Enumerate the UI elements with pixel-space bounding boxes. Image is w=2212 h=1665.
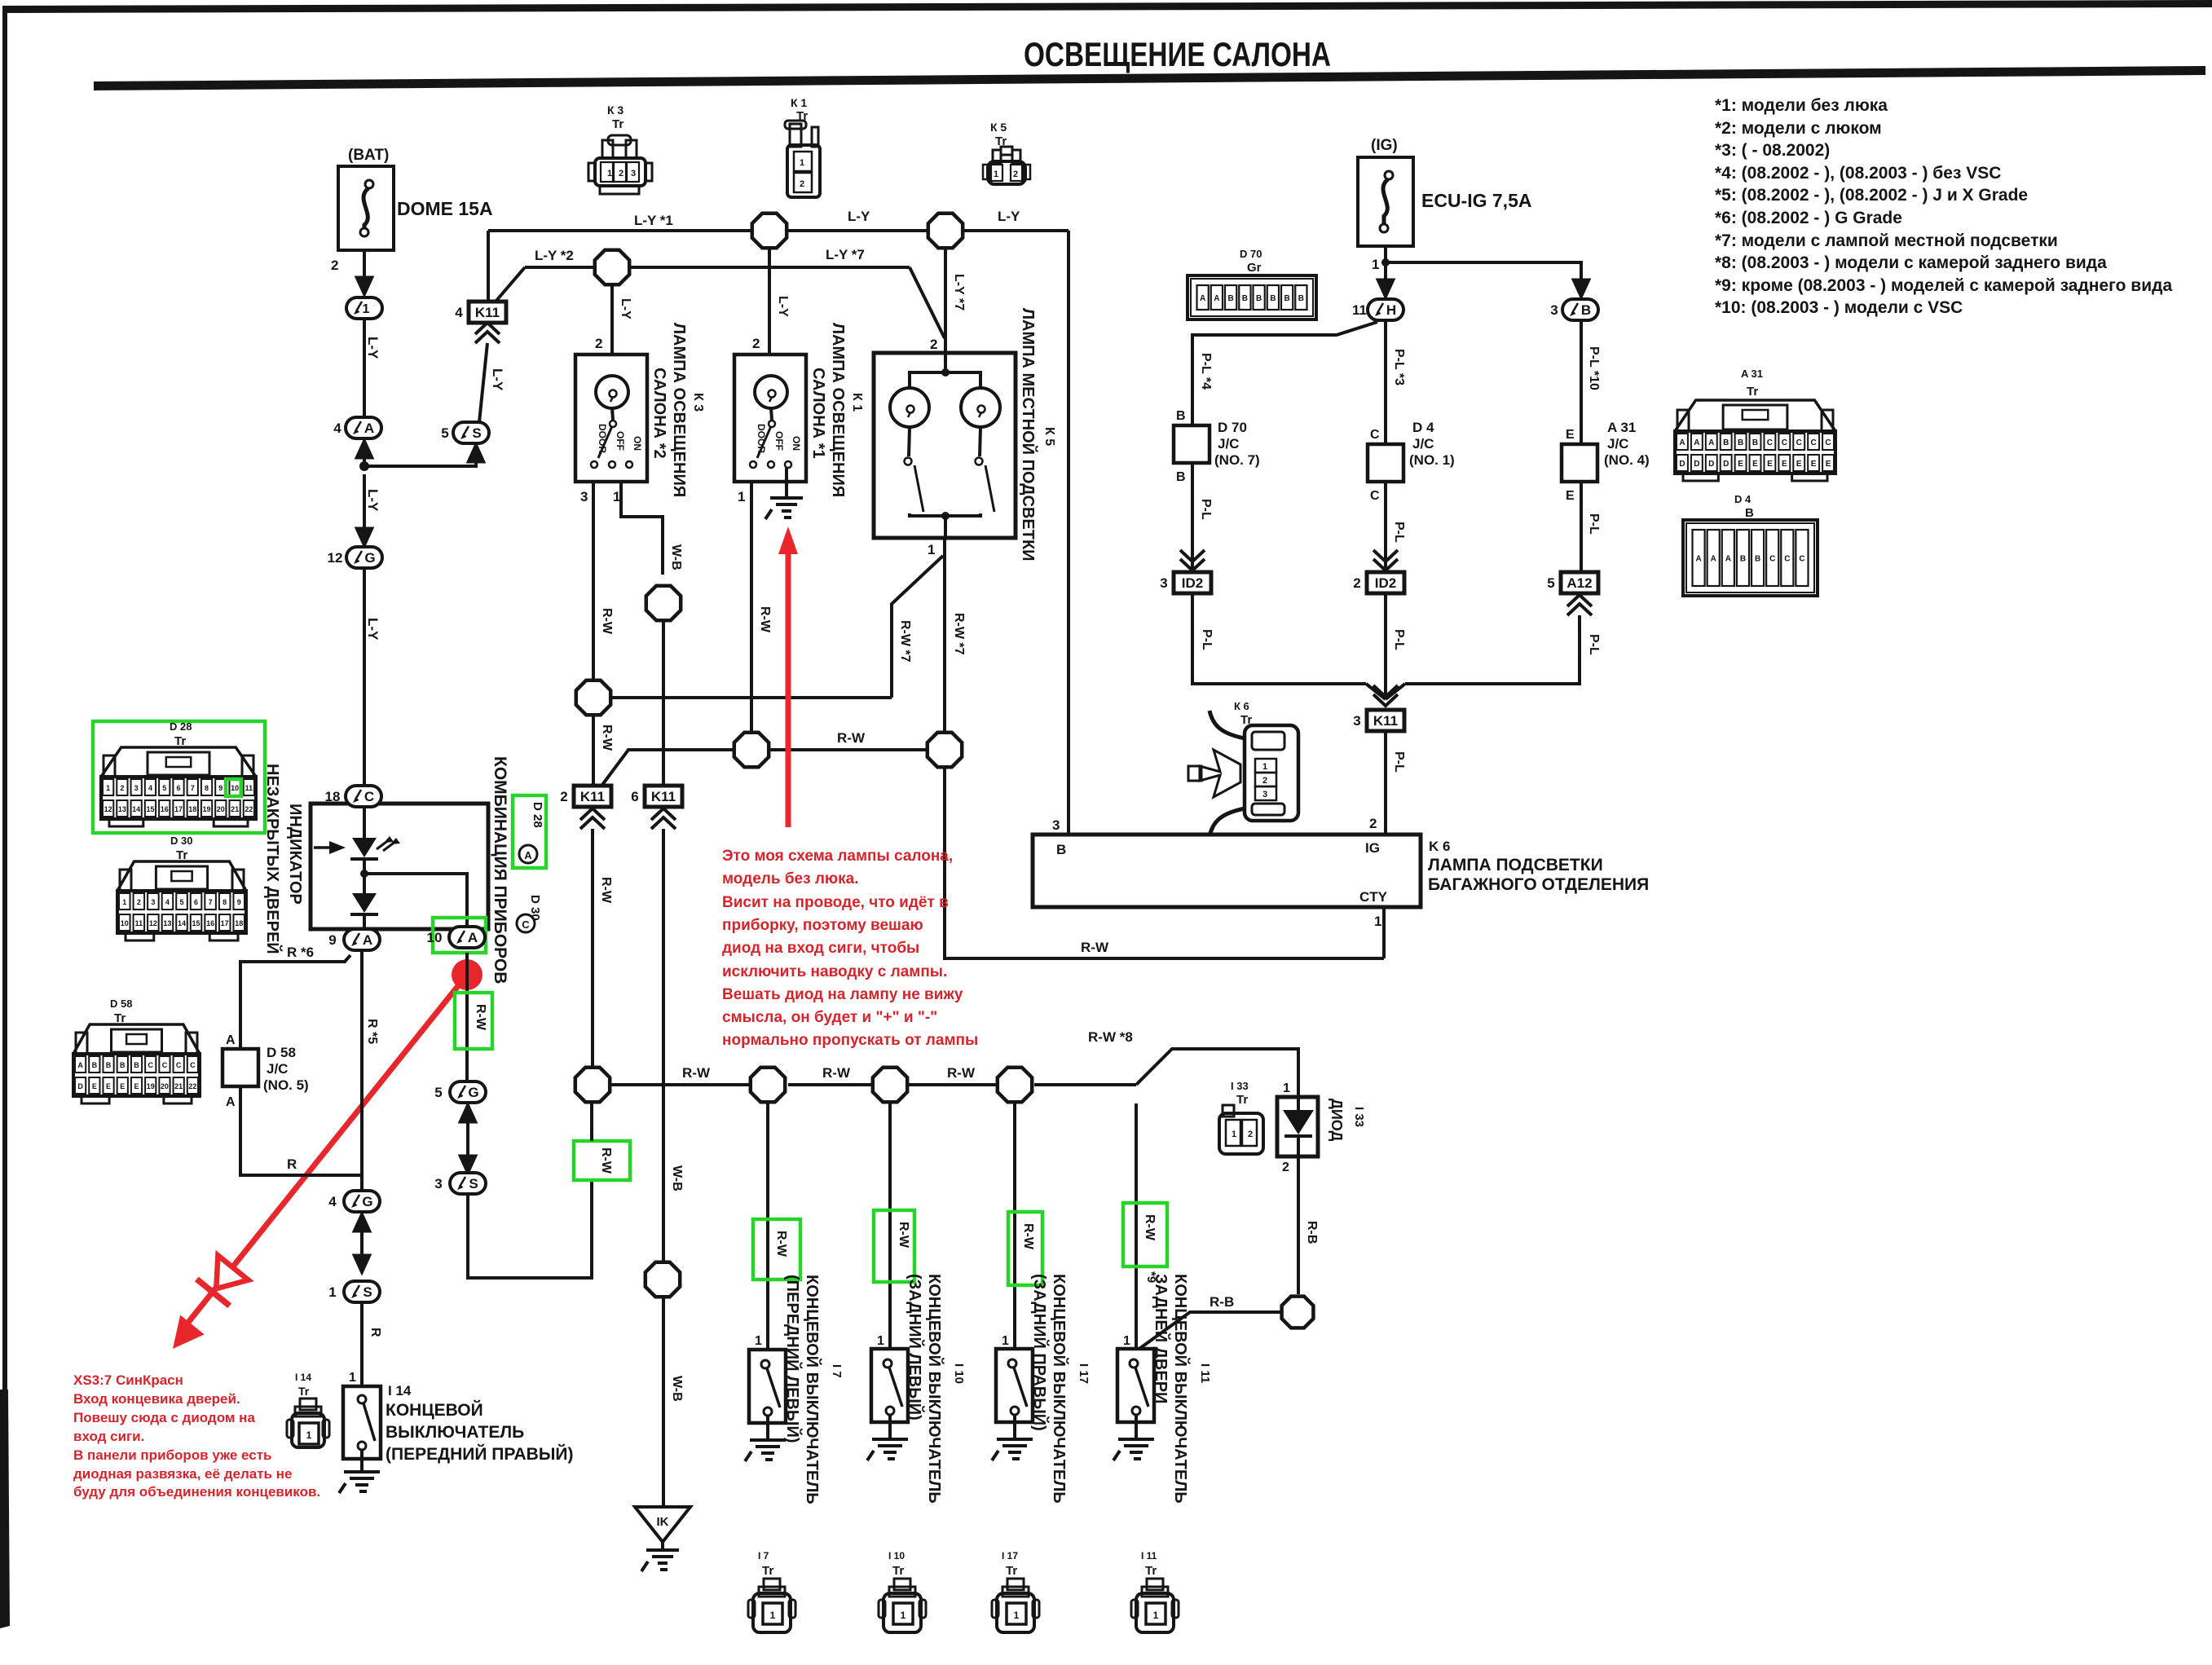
ground back door switch [1113, 1439, 1154, 1460]
svg-text:D: D [1723, 460, 1729, 469]
switch lever front left door switch [767, 1368, 780, 1407]
switch box rear right door switch [996, 1349, 1033, 1422]
svg-text:A: A [1708, 438, 1714, 447]
connector oval 10(A) [427, 927, 485, 948]
svg-text:*5: (08.2002 - ), (08.2002 - ): *5: (08.2002 - ), (08.2002 - ) J и X Gra… [1715, 186, 2028, 205]
wire K5 diagonal branch [892, 556, 943, 698]
wire bus L-Y *1 [488, 229, 1069, 232]
red annotation text block 2 [73, 1372, 320, 1500]
svg-text:P-L *4: P-L *4 [1199, 353, 1213, 390]
red annotation arrowhead [161, 1315, 204, 1359]
wire 12(1G) feed [363, 474, 366, 530]
connector icon I14 Tr [287, 1399, 329, 1447]
svg-text:5: 5 [179, 898, 183, 906]
chevron into ID2 pin3 [1180, 559, 1205, 570]
svg-text:E: E [1752, 460, 1758, 469]
connector icon D70 Gr [1188, 275, 1316, 319]
svg-text:D 28: D 28 [531, 802, 544, 828]
svg-text:CTY: CTY [1359, 889, 1388, 905]
svg-text:Висит на проводе, что идёт в: Висит на проводе, что идёт в [722, 894, 949, 911]
diode symbol I33 [1283, 1110, 1314, 1134]
arrow up below 4(1G) [354, 1214, 370, 1236]
svg-text:R *5: R *5 [365, 1019, 379, 1044]
title underline [94, 66, 2205, 90]
svg-text:R-W: R-W [758, 606, 772, 633]
green box R-W front left door switch [753, 1219, 800, 1280]
fuse ECU-IG 7,5A [1358, 157, 1413, 246]
svg-text:(ПЕРЕДНИЙ ПРАВЫЙ): (ПЕРЕДНИЙ ПРАВЫЙ) [386, 1444, 574, 1464]
svg-text:ID2: ID2 [1375, 575, 1396, 591]
switch pivot K3 [610, 421, 616, 427]
svg-text:1: 1 [1153, 1610, 1159, 1621]
fuse DOME 15A [338, 166, 394, 250]
svg-text:L-Y: L-Y [998, 209, 1020, 224]
svg-text:R-W: R-W [599, 1147, 613, 1174]
switch bottom contact front right [358, 1442, 366, 1450]
svg-text:P-L: P-L [1587, 634, 1601, 655]
switch bottom contact front left door switch [764, 1407, 772, 1416]
svg-text:К 5: К 5 [1042, 427, 1056, 446]
svg-text:18: 18 [325, 789, 341, 804]
svg-text:1: 1 [901, 1610, 906, 1621]
chevron up below K11-2 [580, 808, 605, 820]
chevron up below K11-6 [651, 808, 676, 820]
svg-text:D 4: D 4 [1734, 493, 1752, 505]
svg-text:8: 8 [223, 898, 227, 906]
svg-text:IG: IG [1365, 840, 1380, 856]
wire C to LED1 [363, 807, 366, 838]
svg-text:E: E [1782, 460, 1787, 469]
svg-text:2: 2 [800, 179, 804, 189]
svg-text:14: 14 [132, 805, 140, 813]
contact DOOR K1 [750, 461, 756, 468]
svg-text:1: 1 [1232, 1130, 1236, 1139]
svg-text:3: 3 [434, 1176, 442, 1191]
svg-text:модель без люка.: модель без люка. [722, 870, 859, 888]
svg-text:D 30: D 30 [170, 835, 192, 847]
svg-text:K11: K11 [580, 789, 605, 804]
svg-text:11: 11 [1352, 302, 1367, 318]
svg-text:Tr: Tr [1747, 385, 1758, 399]
svg-text:C: C [364, 789, 374, 804]
svg-text:7: 7 [209, 898, 213, 906]
svg-text:A: A [364, 421, 374, 436]
connector oval 9(A) [328, 929, 380, 950]
node octagon L2 on lower bus [751, 1068, 785, 1102]
svg-text:5: 5 [434, 1085, 442, 1100]
svg-text:Tr: Tr [995, 134, 1007, 148]
svg-text:(IG): (IG) [1371, 137, 1398, 154]
svg-text:8: 8 [205, 784, 209, 792]
switch lever front right [364, 1403, 375, 1441]
svg-text:вход сиги.: вход сиги. [73, 1429, 144, 1444]
connector icon K1 Tr [785, 121, 820, 197]
wire L-Y connector1 to 4(1A) [363, 319, 366, 417]
svg-text:21: 21 [231, 805, 239, 813]
instrument cluster box [311, 804, 488, 929]
svg-text:6: 6 [631, 789, 638, 804]
wire K5 lamp left to contact [909, 427, 910, 456]
wire ECU fuse down [1384, 246, 1387, 281]
svg-text:Tr: Tr [1236, 1093, 1248, 1107]
connector oval 3(1B) [1550, 299, 1598, 320]
wire J5 down to K11 pin6 [662, 622, 665, 785]
svg-text:КОНЦЕВОЙ ВЫКЛЮЧАТЕЛЬ: КОНЦЕВОЙ ВЫКЛЮЧАТЕЛЬ [803, 1275, 822, 1504]
diode box I33 [1277, 1097, 1318, 1156]
svg-text:2: 2 [331, 258, 338, 273]
wire lamp to pivot K3 [612, 408, 613, 420]
wire K5 bottom exit [944, 516, 947, 538]
svg-text:B: B [1745, 506, 1754, 520]
svg-text:2: 2 [1013, 170, 1018, 179]
wire lamp to pivot K1 [771, 408, 772, 420]
svg-text:нормально пропускать от лампы: нормально пропускать от лампы [722, 1032, 978, 1049]
svg-text:22: 22 [245, 805, 253, 813]
svg-text:R-W: R-W [822, 1065, 851, 1081]
switch box rear left door switch [871, 1349, 908, 1422]
wire rear left door switch to ground [888, 1415, 892, 1439]
wire riser to octagon [590, 1103, 593, 1141]
svg-text:КОНЦЕВОЙ: КОНЦЕВОЙ [386, 1400, 483, 1420]
svg-text:E: E [1738, 460, 1743, 469]
svg-text:R-W: R-W [1081, 940, 1109, 955]
contact OFF K1 [768, 461, 774, 468]
svg-text:C: C [1811, 438, 1817, 447]
svg-text:A: A [1679, 438, 1685, 447]
svg-text:L-Y *7: L-Y *7 [826, 247, 865, 262]
svg-text:1: 1 [800, 158, 804, 168]
red annotation line to door switch input [183, 975, 467, 1328]
svg-text:ЛАМПА ОСВЕЩЕНИЯ: ЛАМПА ОСВЕЩЕНИЯ [670, 323, 688, 497]
svg-text:Tr: Tr [1240, 713, 1252, 727]
connector icon D30 Tr [117, 861, 246, 940]
svg-text:2: 2 [1248, 1130, 1253, 1139]
green box R-W rear right door switch [1008, 1212, 1042, 1285]
svg-text:P-L: P-L [1392, 522, 1406, 543]
wire J4 right to R-W*7 corner [612, 696, 892, 699]
svg-text:1: 1 [1262, 762, 1267, 772]
svg-text:5: 5 [1547, 575, 1554, 591]
wire front left door switch to ground [766, 1416, 769, 1440]
svg-text:ДИОД: ДИОД [1329, 1099, 1345, 1142]
svg-text:3: 3 [151, 898, 155, 906]
svg-text:19: 19 [203, 805, 211, 813]
svg-text:L-Y: L-Y [490, 368, 505, 391]
svg-text:Gr: Gr [1247, 261, 1262, 275]
svg-text:КОМБИНАЦИЯ ПРИБОРОВ: КОМБИНАЦИЯ ПРИБОРОВ [491, 756, 509, 984]
junction block A12 pin 5 [1547, 572, 1598, 593]
svg-text:W-B: W-B [670, 1376, 684, 1402]
svg-text:18: 18 [188, 805, 196, 813]
svg-text:*6: (08.2002 - ) G Grade: *6: (08.2002 - ) G Grade [1715, 209, 1902, 227]
svg-text:9: 9 [237, 898, 241, 906]
svg-text:Tr: Tr [298, 1385, 310, 1398]
svg-text:2: 2 [120, 784, 124, 792]
svg-text:диодная развязка, её делать не: диодная развязка, её делать не [73, 1466, 292, 1482]
svg-text:К 6: К 6 [1234, 700, 1249, 712]
wire bus L2-L3 [788, 1083, 871, 1086]
svg-text:R-B: R-B [1305, 1221, 1319, 1244]
svg-text:*9: кроме (08.2003 - ) моделей: *9: кроме (08.2003 - ) моделей с камерой… [1715, 276, 2172, 295]
svg-text:12: 12 [328, 550, 343, 566]
svg-text:*7: модели с лампой местной по: *7: модели с лампой местной подсветки [1715, 231, 2058, 250]
connector oval 3(1S) [434, 1173, 486, 1194]
svg-text:3: 3 [1550, 302, 1558, 318]
trunk lamp box ЛАМПА ПОДСВЕТКИ БАГАЖНОГО ОТДЕЛЕНИЯ [1033, 835, 1421, 907]
LED diode 1 [352, 838, 377, 857]
svg-text:1: 1 [106, 784, 110, 792]
svg-text:L-Y: L-Y [365, 337, 381, 359]
node octagon J4 (R-W) [576, 681, 610, 715]
red junction dot [452, 959, 482, 990]
svg-text:19: 19 [147, 1082, 155, 1090]
svg-text:4: 4 [148, 784, 152, 792]
svg-text:R-W: R-W [837, 730, 866, 746]
svg-text:D 58: D 58 [110, 998, 132, 1010]
svg-text:6: 6 [194, 898, 198, 906]
svg-text:9: 9 [328, 932, 336, 948]
svg-text:I 7: I 7 [830, 1364, 844, 1378]
svg-text:A 31: A 31 [1607, 420, 1636, 435]
svg-text:E: E [120, 1082, 125, 1090]
svg-text:B: B [106, 1061, 112, 1069]
svg-text:12: 12 [149, 919, 157, 927]
svg-text:(NO. 7): (NO. 7) [1214, 452, 1260, 468]
wire 5(1S) to K11 pin4 chevron [479, 343, 487, 422]
svg-text:DOME 15A: DOME 15A [397, 198, 493, 219]
wire D70 JC down [1191, 463, 1194, 575]
svg-text:E: E [134, 1082, 139, 1090]
arrow into 11(1H) [1377, 275, 1394, 297]
switch bottom contact rear right door switch [1011, 1407, 1019, 1415]
junction block ID2 pin 3 [1160, 572, 1211, 593]
svg-text:K11: K11 [1373, 713, 1398, 729]
node octagon L3 on lower bus [873, 1068, 907, 1102]
svg-text:B: B [1298, 294, 1304, 303]
svg-text:C: C [1370, 489, 1380, 503]
svg-text:A: A [363, 932, 372, 948]
svg-text:B: B [1176, 409, 1186, 423]
svg-text:B: B [1256, 294, 1262, 303]
svg-text:K11: K11 [651, 789, 676, 804]
svg-text:НЕЗАКРЫТЫХ ДВЕРЕЙ: НЕЗАКРЫТЫХ ДВЕРЕЙ [263, 764, 283, 954]
svg-text:диод на вход сиги, чтобы: диод на вход сиги, чтобы [722, 940, 919, 957]
wire K11-2 down to octagon [591, 829, 594, 1066]
arrow into 12(1G) [356, 523, 372, 546]
svg-text:A: A [1214, 294, 1219, 303]
red vertical arrow [786, 544, 791, 827]
wire K11-3 down to trunk lamp [1384, 731, 1387, 835]
svg-text:1: 1 [122, 898, 126, 906]
svg-text:XS3:7 СинКрасн: XS3:7 СинКрасн [73, 1372, 183, 1388]
svg-text:К 1: К 1 [791, 96, 807, 109]
node K5 top junction [941, 368, 950, 377]
wire ID2-3 down to merge [1192, 593, 1366, 684]
junction block K11 pin 4 [455, 302, 506, 323]
connector oval 1 [346, 297, 382, 319]
border frame bottom-left bar [0, 1390, 10, 1628]
svg-text:1: 1 [994, 170, 998, 179]
switch bottom contact rear left door switch [886, 1407, 894, 1415]
connector oval 5(1G) [434, 1081, 486, 1103]
svg-text:E: E [1767, 460, 1773, 469]
wire 9(A) down [360, 950, 364, 1175]
svg-text:D: D [77, 1082, 83, 1090]
green box around D 28 A label [513, 795, 546, 868]
connector oval 1(1S) [328, 1281, 380, 1302]
wire drop to back door switch [1135, 1103, 1138, 1349]
svg-text:P-L: P-L [1200, 629, 1214, 650]
svg-text:Tr: Tr [174, 734, 186, 748]
svg-text:R-W: R-W [682, 1065, 711, 1081]
svg-text:P-L: P-L [1199, 499, 1213, 520]
connector icon K3 Tr [588, 135, 652, 194]
switch lever back door switch [1135, 1368, 1148, 1407]
node K5 bottom junction [941, 512, 950, 520]
arrow into 3(1S) [460, 1151, 476, 1174]
svg-text:1: 1 [877, 1334, 884, 1348]
wire A31 JC down [1580, 482, 1583, 574]
svg-text:11: 11 [245, 784, 253, 792]
svg-text:C: C [1784, 555, 1790, 564]
node LED junction [360, 870, 368, 878]
switch lever K1 [757, 426, 771, 458]
svg-text:D 58: D 58 [267, 1045, 296, 1060]
svg-text:20: 20 [161, 1082, 169, 1090]
svg-text:P-L *3: P-L *3 [1392, 349, 1406, 385]
svg-text:J/C: J/C [267, 1061, 288, 1077]
svg-text:I 7: I 7 [758, 1550, 769, 1561]
svg-text:исключить наводку с лампы.: исключить наводку с лампы. [722, 963, 947, 980]
ground triangle IK [635, 1507, 690, 1542]
svg-text:3: 3 [1052, 817, 1060, 833]
svg-text:Tr: Tr [176, 848, 187, 862]
svg-text:17: 17 [221, 919, 229, 927]
svg-text:К 3: К 3 [691, 393, 705, 412]
svg-text:9: 9 [218, 784, 223, 792]
svg-text:D: D [1679, 460, 1685, 469]
wire junction to 5(1S) riser [364, 461, 476, 466]
svg-text:C: C [190, 1061, 196, 1069]
svg-text:2: 2 [619, 169, 624, 178]
svg-text:Повешу сюда с диодом на: Повешу сюда с диодом на [73, 1410, 255, 1425]
svg-text:Tr: Tr [1006, 1564, 1017, 1578]
wire R-W bus A-B [770, 748, 926, 751]
svg-text:Вход концевика дверей.: Вход концевика дверей. [73, 1391, 240, 1407]
lamp symbol in K1 [755, 376, 787, 408]
svg-text:B: B [1228, 294, 1234, 303]
switch box front right [343, 1386, 381, 1459]
wire 11(1H) down middle P-L [1384, 320, 1387, 444]
green highlight pin 10 of D28 [226, 779, 241, 796]
svg-text:1: 1 [755, 1334, 762, 1348]
wire K11 to L-Y bus corner [487, 231, 490, 302]
connector icon A31 Tr [1675, 400, 1835, 481]
svg-text:*8: (08.2003 - ) модели с каме: *8: (08.2003 - ) модели с камерой заднег… [1715, 253, 2107, 272]
svg-text:C: C [1825, 438, 1831, 447]
svg-text:13: 13 [118, 805, 126, 813]
svg-text:16: 16 [161, 805, 169, 813]
svg-text:H: H [1386, 302, 1396, 318]
lamp symbol K5 right [961, 388, 1000, 427]
wire J1 drop to lamp K1 [768, 249, 771, 355]
svg-text:5: 5 [162, 784, 166, 792]
node octagon J2 on L-Y bus [928, 214, 963, 248]
wire 3(1S) down right up to octagon [468, 1180, 592, 1278]
svg-text:(BAT): (BAT) [348, 147, 389, 164]
svg-text:1: 1 [1374, 914, 1381, 929]
svg-text:B: B [1723, 438, 1729, 447]
svg-text:C: C [1799, 555, 1804, 564]
svg-text:G: G [362, 1194, 372, 1209]
svg-text:J/C: J/C [1412, 436, 1434, 451]
svg-text:R-W: R-W [600, 608, 614, 635]
wire octagon B down and left to trunk pin1 [945, 769, 1384, 958]
junction block K11 pin 2 [560, 786, 611, 807]
svg-text:ВЫКЛЮЧАТЕЛЬ: ВЫКЛЮЧАТЕЛЬ [386, 1423, 524, 1442]
svg-text:C: C [176, 1061, 182, 1069]
svg-text:1: 1 [770, 1610, 776, 1621]
svg-text:C: C [522, 918, 530, 931]
svg-text:B: B [1581, 302, 1591, 318]
LED diode 2 [352, 893, 377, 913]
svg-text:R: R [368, 1328, 382, 1337]
svg-text:E: E [92, 1082, 97, 1090]
svg-text:3: 3 [1353, 713, 1360, 729]
wire K1 pin1 R-W down [750, 482, 753, 731]
switch box front left door switch [749, 1350, 786, 1423]
lamp box K1 САЛОНА [734, 355, 806, 482]
svg-text:14: 14 [178, 919, 186, 927]
switch lever rear right door switch [1014, 1368, 1027, 1407]
wire K3 pin1 to W-B drop [621, 482, 663, 575]
svg-text:2: 2 [752, 336, 760, 351]
switch lever rear left door switch [889, 1368, 902, 1407]
svg-text:B: B [1176, 470, 1186, 484]
node octagon L1 on lower bus [575, 1068, 610, 1102]
connector oval 18(C) on cluster [325, 786, 381, 807]
ground front right switch [339, 1472, 380, 1493]
svg-text:G: G [468, 1085, 478, 1100]
svg-text:K11: K11 [475, 305, 500, 320]
svg-text:1: 1 [1002, 1334, 1009, 1348]
wire ECU branch to right [1386, 262, 1581, 281]
svg-text:DOOR: DOOR [597, 424, 608, 453]
svg-text:R-W: R-W [599, 877, 613, 904]
svg-text:D: D [1694, 460, 1699, 469]
svg-text:I 14: I 14 [295, 1372, 311, 1383]
border frame left [2, 6, 7, 1493]
svg-text:R-W: R-W [600, 725, 614, 751]
contact K5 left [905, 458, 912, 465]
svg-text:10: 10 [121, 919, 129, 927]
svg-text:A: A [468, 930, 478, 945]
svg-text:S: S [472, 425, 481, 441]
svg-text:ЛАМПА ПОДСВЕТКИ: ЛАМПА ПОДСВЕТКИ [1428, 856, 1603, 874]
svg-text:КОНЦЕВОЙ ВЫКЛЮЧАТЕЛЬ: КОНЦЕВОЙ ВЫКЛЮЧАТЕЛЬ [1171, 1274, 1191, 1504]
svg-text:B: B [120, 1061, 126, 1069]
svg-text:6: 6 [176, 784, 180, 792]
switch lever K3 [598, 426, 612, 458]
svg-text:E: E [1566, 489, 1575, 503]
svg-text:5: 5 [441, 425, 448, 441]
LED1 light arrows [377, 839, 396, 851]
wire K5 pin1 down [943, 538, 946, 731]
lamp box K3 САЛОНА [575, 355, 647, 482]
svg-text:17: 17 [174, 805, 183, 813]
svg-text:B: B [1755, 555, 1760, 564]
svg-text:R: R [287, 1156, 297, 1172]
